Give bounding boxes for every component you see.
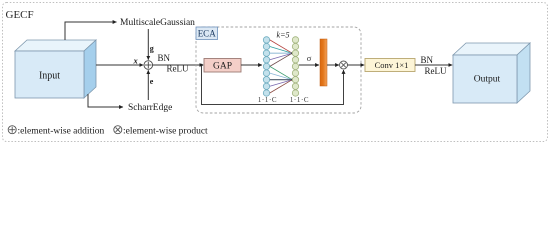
- svg-text:1·1·C: 1·1·C: [258, 96, 277, 104]
- wire green column to sigmoid bar: [299, 64, 319, 66]
- wire e: ScharrEdge up to adder: [147, 70, 149, 100]
- wire bar to product: [327, 64, 339, 66]
- wire adder to GAP: [153, 64, 204, 66]
- node green feature column 1x1xC: [292, 37, 298, 97]
- svg-text:MultiscaleGaussian: MultiscaleGaussian: [120, 18, 195, 28]
- fan lower conv1d k=5 connections: [270, 66, 292, 93]
- ECA label: [196, 27, 218, 40]
- svg-text:ReLU: ReLU: [425, 66, 447, 76]
- svg-text:GAP: GAP: [213, 62, 232, 72]
- wire g: MultiscaleGaussian down to adder: [147, 29, 149, 60]
- product element-wise product node: [340, 61, 348, 69]
- wire input to ScharrEdge: [88, 94, 123, 107]
- fan convergence dots: [291, 52, 294, 55]
- block Input cube: [15, 40, 96, 98]
- svg-text:1·1·C: 1·1·C: [290, 96, 309, 104]
- legend product symbol: [114, 126, 122, 134]
- feedback wire from junction to product: [202, 65, 344, 105]
- fan upper conv1d k=5 connections: [270, 40, 292, 67]
- block Output cube: [453, 43, 530, 103]
- block Conv 1x1: [365, 59, 415, 72]
- svg-text:Conv 1×1: Conv 1×1: [375, 60, 409, 70]
- svg-text:e: e: [150, 77, 154, 86]
- svg-text:x: x: [133, 56, 139, 66]
- svg-text:GECF: GECF: [6, 9, 34, 21]
- svg-text:k=5: k=5: [277, 31, 290, 40]
- legend addition symbol: [8, 126, 16, 134]
- svg-text::element-wise product: :element-wise product: [123, 127, 208, 137]
- svg-text:BN: BN: [158, 53, 171, 63]
- wire product to Conv1x1: [348, 64, 365, 66]
- ECA container: [196, 27, 361, 113]
- svg-text::element-wise addition: :element-wise addition: [18, 127, 105, 137]
- wire input to MultiscaleGaussian: [65, 22, 117, 40]
- svg-text:ScharrEdge: ScharrEdge: [128, 103, 172, 113]
- svg-text:Input: Input: [39, 71, 60, 82]
- svg-text:Output: Output: [474, 75, 501, 85]
- node blue feature column 1x1xC: [263, 37, 269, 97]
- sigmoid bar: [320, 39, 327, 86]
- figure frame: [3, 3, 548, 142]
- svg-text:ECA: ECA: [198, 29, 217, 39]
- wire GAP to feature column: [241, 64, 262, 66]
- svg-text:σ: σ: [307, 53, 312, 63]
- svg-text:BN: BN: [421, 55, 434, 65]
- junction node: [200, 64, 202, 66]
- block GAP: [204, 59, 241, 73]
- wire Conv1x1 to Output: [415, 64, 452, 66]
- adder element-wise addition node: [144, 61, 153, 70]
- svg-text:g: g: [150, 44, 154, 53]
- wire x: input to adder: [96, 64, 143, 66]
